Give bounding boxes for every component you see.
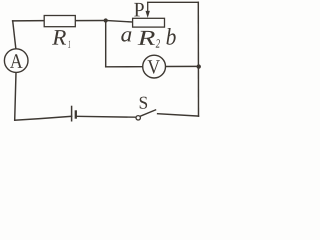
- battery long plate: [71, 106, 73, 122]
- wire top-right horizontal from wiper: [148, 1, 199, 3]
- wire switch to bottom-right corner: [158, 114, 199, 116]
- wire bottom left to battery: [15, 116, 72, 120]
- wiper arrow head: [146, 11, 150, 18]
- terminal a label: [121, 31, 131, 41]
- ammeter A circle: [4, 49, 28, 73]
- wire voltmeter to right edge: [166, 65, 199, 67]
- switch S label: [140, 97, 147, 109]
- resistor R1 label R: [52, 30, 66, 44]
- wire to voltmeter: [106, 66, 143, 68]
- wire battery to switch: [76, 115, 136, 118]
- voltmeter V letter: [147, 60, 159, 74]
- ammeter A letter: [10, 54, 23, 68]
- rheostat R2 label R: [138, 31, 155, 45]
- wire left vertical lower: [15, 72, 16, 120]
- wiper P label: [134, 3, 144, 17]
- switch contact circle: [136, 116, 140, 120]
- voltmeter V circle: [143, 55, 166, 78]
- switch blade: [140, 110, 156, 117]
- wire right vertical: [197, 2, 199, 116]
- resistor R1 label subscript 1: [68, 41, 70, 48]
- junction node dot top: [104, 18, 108, 22]
- wire top-left horizontal: [13, 20, 45, 22]
- wire junction to R2: [106, 21, 133, 23]
- resistor R1 box: [44, 16, 75, 27]
- battery short plate: [75, 110, 77, 118]
- terminal b label: [166, 28, 175, 45]
- rheostat R2 box: [133, 18, 165, 27]
- wire junction vertical down: [105, 21, 107, 67]
- wire R1 to junction: [75, 20, 105, 22]
- junction node dot right: [197, 64, 201, 68]
- wire left vertical upper: [13, 21, 16, 49]
- rheostat R2 label subscript 2: [156, 39, 160, 47]
- wiper arrow stem: [147, 2, 149, 11]
